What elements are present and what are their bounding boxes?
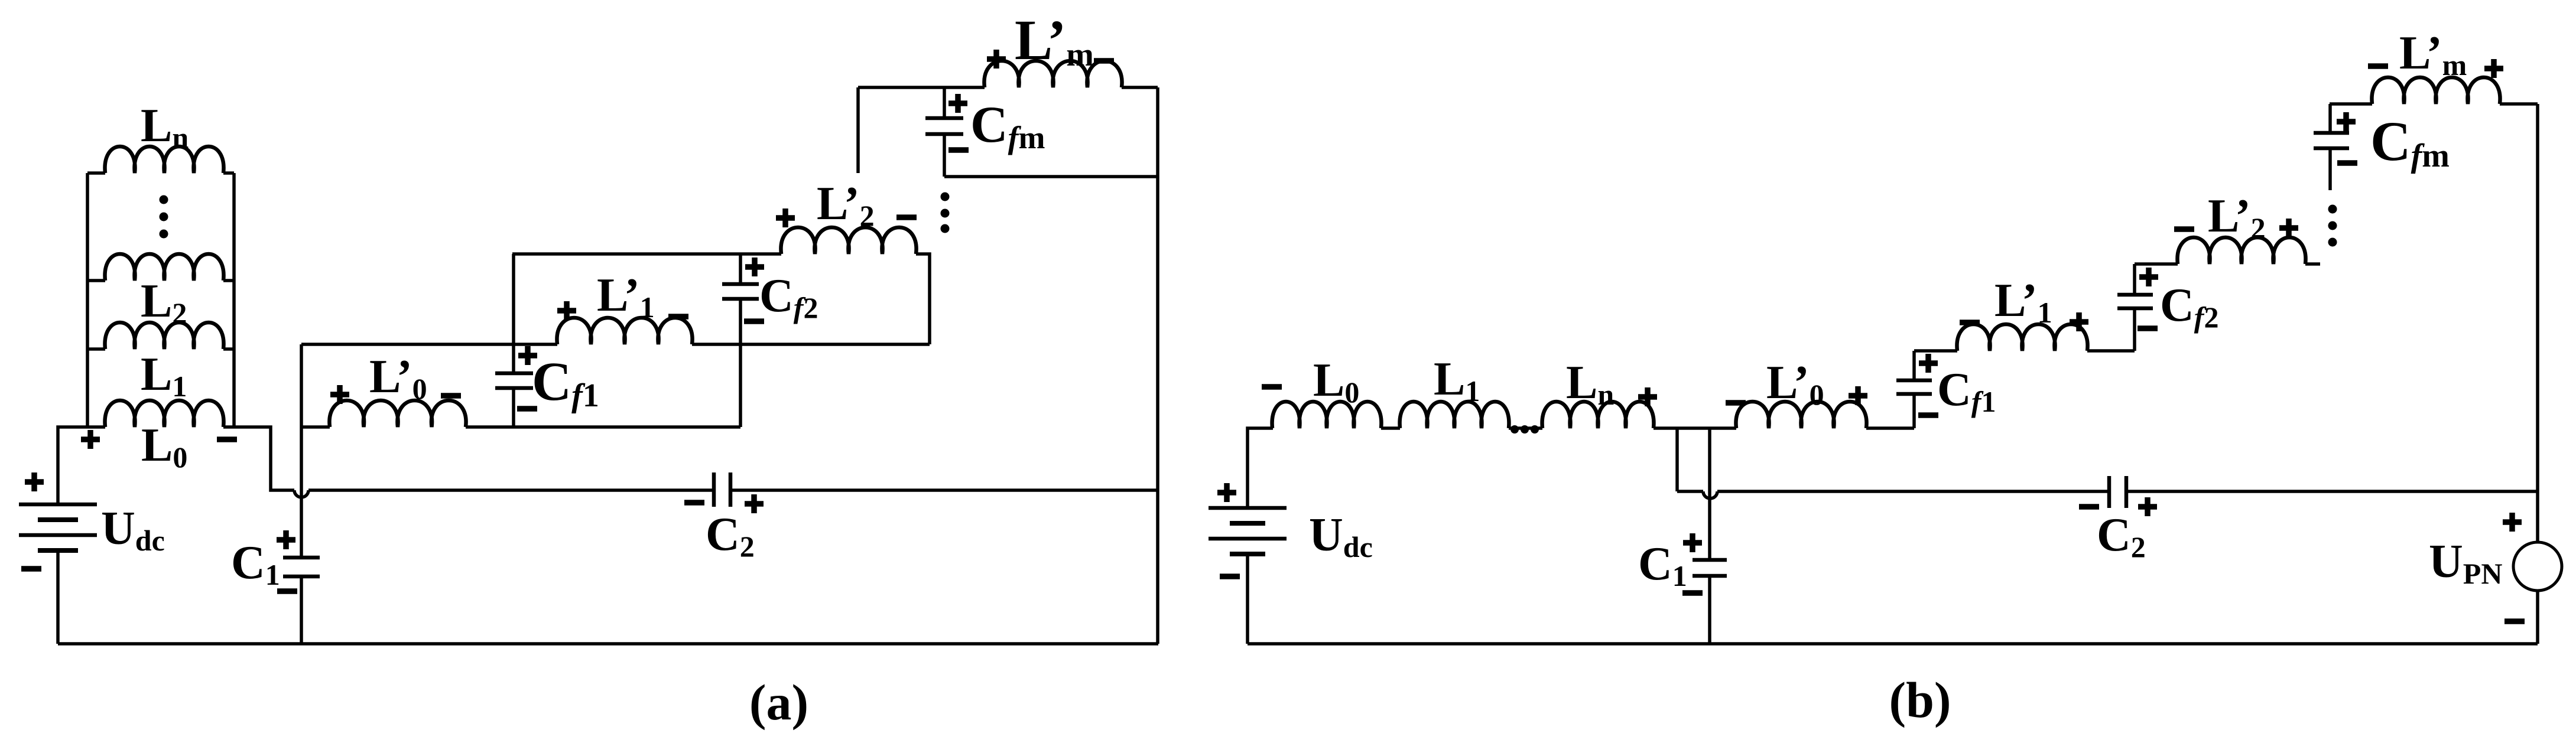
inductor L'0 (b) (1726, 357, 1867, 428)
wire L1 to Ln with ellipsis dots (b) (1509, 425, 1542, 434)
wire L'2 row left segment (a) (512, 252, 781, 256)
inductor L1 (b) (1400, 353, 1509, 428)
capacitor Cfm (b) (2314, 104, 2450, 190)
capacitor C2 (b) (2079, 476, 2157, 563)
inductor L'2 (b) (2174, 190, 2306, 264)
wire right vertical down to U_PN (b) (2536, 104, 2539, 542)
ellipsis dots between stage 2 and stage m (b) (2328, 205, 2337, 247)
inductor L'1 (a) (557, 269, 692, 344)
capacitor C1 (b) (1638, 533, 1727, 644)
inductor L1 (a) (87, 322, 234, 403)
svg-text:(a): (a) (749, 674, 808, 731)
wire L'm row left segment (a) (858, 86, 985, 89)
inductor Ln (b) (1542, 357, 1657, 428)
inductor L'2 (a) (776, 178, 917, 254)
wire bank left rail (a) (86, 173, 89, 427)
wire stage-m bottom edge (a) (944, 175, 1158, 178)
wire L'2 right stub (b) (2305, 262, 2320, 266)
wire bottom rail (b) (1248, 642, 2538, 646)
wire Cf1 to L'1 (b) (1914, 349, 1957, 353)
wire mid-rail right of C2 (b) (2126, 490, 2538, 493)
wire L0-L1 (b) (1381, 426, 1400, 430)
inductor Ln (a) (87, 100, 234, 173)
wire Ln to L'0 (b) (1654, 426, 1736, 430)
wire hop over C1 lead (a) (294, 490, 308, 497)
battery U_dc (a) (19, 472, 165, 644)
inductor L0 (a) (81, 400, 237, 474)
wire junction drop to C1 (b) (1708, 428, 1711, 560)
wire L'1 row right segment (a) (692, 343, 930, 346)
capacitor Cf1 (a) (495, 254, 599, 427)
capacitor C1 (a) (231, 530, 320, 644)
wire junction drop to mid-rail (b) (1675, 428, 1679, 491)
capacitor Cf2 (b) (2117, 264, 2218, 351)
wire L'2 row right segment and right edge (a) (916, 254, 930, 344)
inductor L0 (b) (1262, 354, 1381, 428)
wire L0 right to mid-rail corner (a) (223, 427, 294, 490)
wire L'm row right segment (a) (1122, 86, 1158, 89)
wire Cf2 to L'2 (b) (2135, 262, 2178, 266)
wire mid-rail left piece (b) (1677, 490, 1703, 493)
inductor L'm (a) (984, 8, 1122, 87)
wire right vertical (a) (1156, 87, 1159, 644)
caption (a) (749, 674, 808, 731)
wire mid-rail to C2 (b) (1717, 490, 2109, 493)
wire mid-rail left of C2 (a) (308, 488, 714, 492)
wire Cfm to L'm (b) (2330, 102, 2372, 106)
voltage source U_PN (b) (2429, 513, 2562, 644)
ellipsis dots between stage 2 and stage m (a) (941, 193, 950, 233)
ellipsis dots in inductor bank (a) (160, 195, 168, 239)
wire battery to L0 (b) (1248, 428, 1273, 507)
wire stage-m left stub (a) (856, 87, 860, 173)
svg-text:(b): (b) (1889, 672, 1951, 728)
wire L'1 row left segment (a) (301, 343, 557, 346)
wire L'1 to Cf2 (b) (2087, 349, 2135, 353)
capacitor Cfm (a) (925, 87, 1045, 177)
capacitor Cf2 (a) (722, 254, 818, 427)
wire mid-rail right of C2 (a) (730, 488, 1158, 492)
wire node to C1 vertical (a) (300, 344, 303, 558)
capacitor Cf1 (b) (1896, 351, 1996, 428)
wire battery+ up to L0 baseline (a) (58, 427, 105, 506)
capacitor C2 (a) (684, 472, 764, 563)
wire L'0 to Cf1 (b) (1866, 426, 1914, 430)
inductor L'1 (b) (1957, 275, 2088, 351)
inductor L'0 (a) (301, 351, 740, 427)
inductor L'm (b) (2368, 27, 2503, 104)
wire bottom rail (a) (58, 642, 1158, 646)
caption (b) (1889, 672, 1951, 728)
wire bank right rail (a) (232, 173, 236, 427)
wire hop over C1 lead (b) (1703, 491, 1717, 498)
battery U_dc (b) (1209, 483, 1373, 644)
wire L'm to right edge (b) (2500, 102, 2538, 106)
inductor L2 (a) (87, 254, 234, 330)
